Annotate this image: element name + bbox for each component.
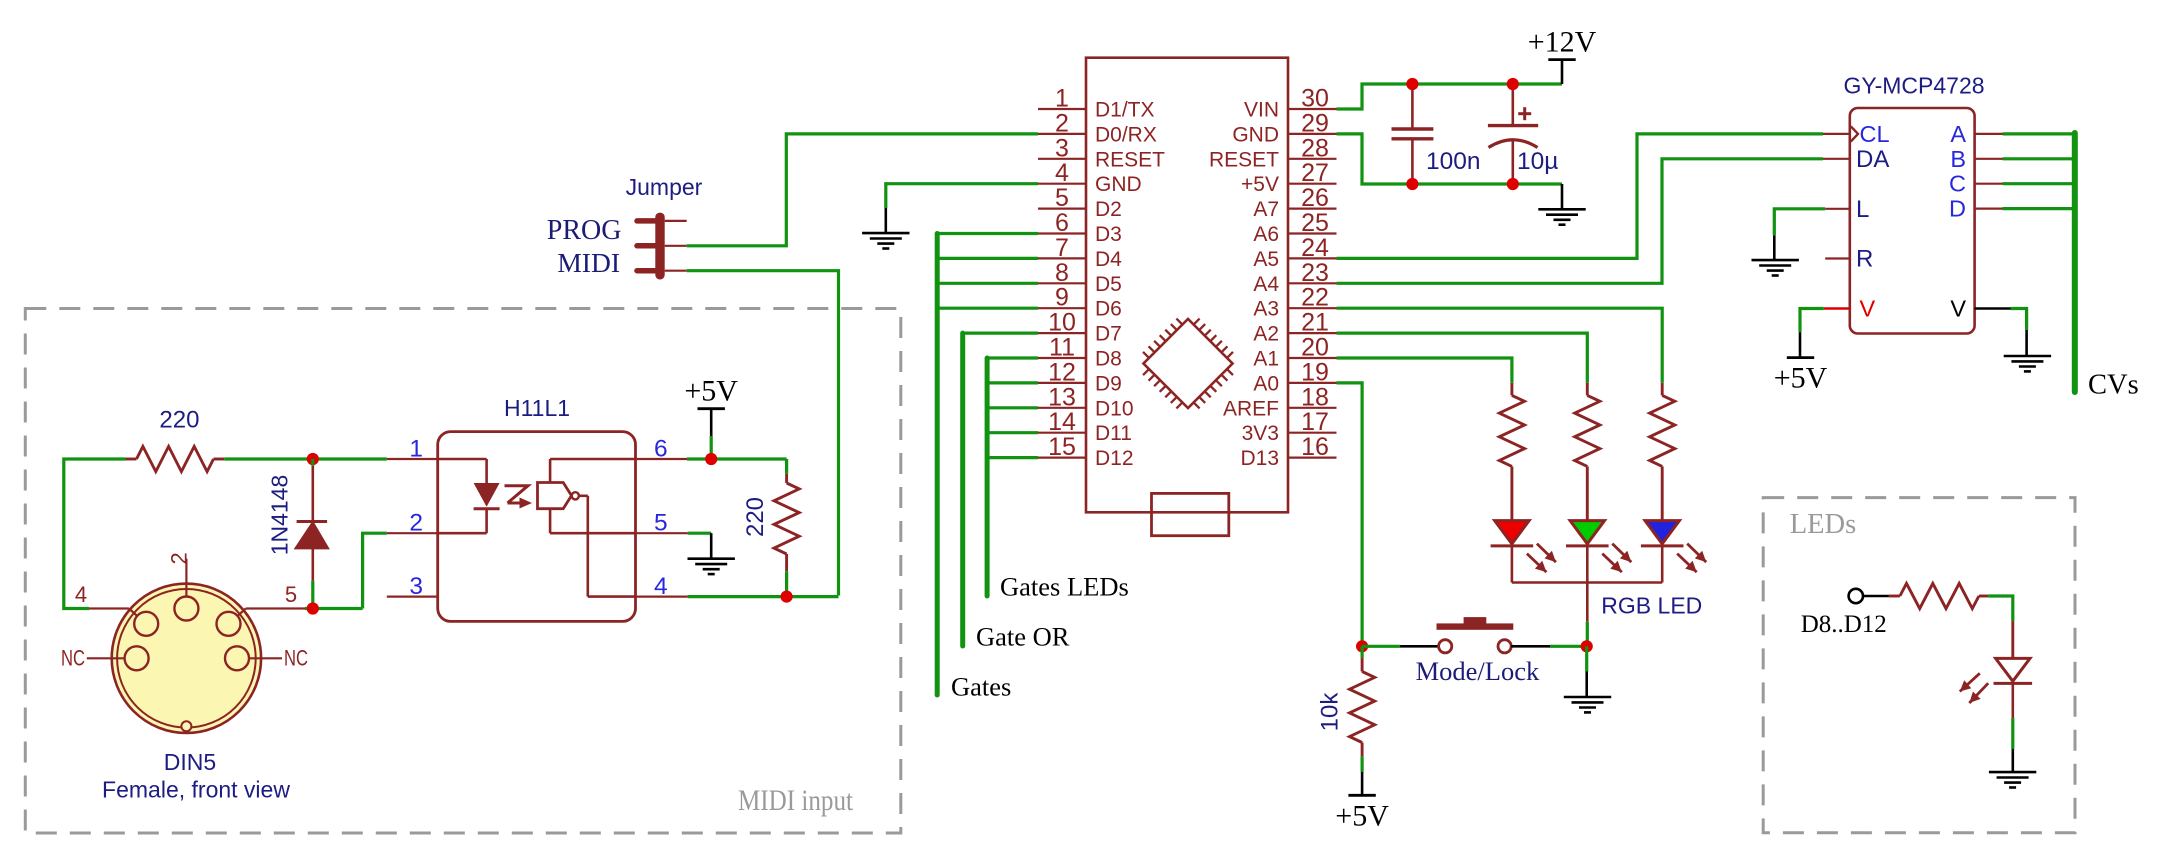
wire U2 pin4 net — [688, 595, 839, 598]
wire VIN to +12V rail — [1337, 84, 1563, 109]
U2 pin 1 — [387, 436, 438, 463]
svg-text:3: 3 — [1055, 134, 1069, 162]
svg-text:AREF: AREF — [1223, 397, 1279, 420]
wire A0 to switch — [1337, 383, 1363, 646]
svg-text:RGB LED: RGB LED — [1601, 592, 1702, 618]
svg-text:D8..D12: D8..D12 — [1801, 611, 1887, 638]
junction C1 top — [1406, 78, 1418, 90]
wire junction to switch — [1362, 645, 1400, 648]
label Gate OR — [976, 622, 1070, 652]
bus Gate OR (D7) — [963, 333, 1038, 646]
junction R1/D1 — [307, 453, 319, 465]
svg-text:+5V: +5V — [684, 375, 738, 408]
U2 pin 6 — [636, 436, 688, 463]
svg-text:16: 16 — [1301, 433, 1329, 461]
svg-text:D8: D8 — [1095, 348, 1122, 371]
svg-text:12: 12 — [1048, 358, 1076, 386]
wire U3 B to CVs bus — [2003, 157, 2075, 160]
U1 pin 8 D5 — [1038, 259, 1122, 296]
svg-text:+5V: +5V — [1241, 173, 1279, 196]
svg-text:D13: D13 — [1240, 447, 1279, 470]
U1 chip icon (QFP) — [1131, 307, 1244, 420]
bus Gates (D3-D6) — [937, 234, 1038, 696]
svg-text:Female, front view: Female, front view — [102, 777, 290, 803]
IC U1 microcontroller board (Arduino Nano) body — [1086, 58, 1288, 513]
resistor R6 (gate LED) — [1889, 583, 1988, 608]
svg-text:A4: A4 — [1253, 273, 1279, 296]
svg-text:D: D — [1949, 196, 1966, 222]
U3 pin C — [1949, 171, 2002, 197]
junction switch/cathode/ground — [1581, 640, 1593, 652]
connector J1 DIN5 body — [112, 584, 261, 733]
wire U3 A to CVs bus — [2003, 132, 2075, 135]
svg-text:NC: NC — [61, 646, 85, 671]
U1 pin 25 A6 — [1253, 209, 1336, 246]
svg-text:CVs: CVs — [2088, 370, 2139, 401]
capacitor C1 100n — [1392, 84, 1481, 184]
svg-text:GND: GND — [1095, 173, 1142, 196]
power +5V below 10k — [1335, 795, 1389, 832]
svg-text:22: 22 — [1301, 284, 1329, 312]
U1 pin 5 D2 — [1038, 184, 1122, 221]
label MIDI input — [738, 784, 854, 817]
junction A0/R4/switch — [1356, 640, 1368, 652]
svg-text:7: 7 — [1055, 234, 1069, 262]
U1 pin 14 D11 — [1038, 408, 1132, 445]
wire A3 to R-blue — [1337, 308, 1663, 383]
svg-text:D6: D6 — [1095, 298, 1122, 321]
U1 pin 13 D10 — [1038, 383, 1134, 420]
U1 pin 7 D4 — [1038, 234, 1122, 271]
U1 pin 16 D13 — [1240, 433, 1336, 470]
junction C2 top — [1507, 78, 1519, 90]
svg-text:1N4148: 1N4148 — [267, 475, 293, 556]
wire A5 to MCP4728 CL — [1337, 134, 1824, 259]
svg-text:2: 2 — [167, 552, 192, 564]
junction C1 bottom — [1406, 178, 1418, 190]
label CVs — [2088, 370, 2139, 401]
svg-text:B: B — [1950, 146, 1966, 172]
label MIDI — [557, 247, 620, 278]
label Female front view — [102, 777, 290, 803]
pin connector D8..D12 — [1849, 589, 1889, 603]
svg-text:D7: D7 — [1095, 323, 1122, 346]
svg-text:19: 19 — [1301, 358, 1329, 386]
svg-text:3: 3 — [409, 573, 423, 600]
U3 pin DA — [1823, 146, 1889, 173]
U1 pin 10 D7 — [1038, 309, 1122, 346]
jumper JP1 (PROG/MIDI select) — [626, 174, 703, 280]
svg-text:3V3: 3V3 — [1242, 422, 1279, 445]
svg-text:D12: D12 — [1095, 447, 1134, 470]
svg-text:5: 5 — [1055, 184, 1069, 212]
svg-text:Mode/Lock: Mode/Lock — [1416, 656, 1540, 686]
U2 pin 3 — [387, 573, 438, 600]
wire U1 GND pin4 to ground — [886, 184, 1038, 233]
wire cathode to switch junction — [1586, 622, 1589, 647]
J1 pin 5 lead — [238, 582, 306, 616]
wire switch to junction2 — [1550, 645, 1587, 648]
U1 pin 21 A2 — [1253, 309, 1336, 346]
svg-text:27: 27 — [1301, 159, 1329, 187]
label PROG — [547, 215, 622, 246]
svg-text:10k: 10k — [1317, 692, 1344, 732]
U1 pin 2 D0/RX — [1038, 109, 1157, 146]
LED D4 blue — [1641, 521, 1706, 573]
U1 pin 29 GND — [1232, 109, 1336, 146]
U3 pin A — [1950, 121, 2002, 147]
svg-text:D10: D10 — [1095, 397, 1134, 420]
svg-text:Gates LEDs: Gates LEDs — [1000, 572, 1129, 602]
svg-text:29: 29 — [1301, 109, 1329, 137]
svg-text:A7: A7 — [1253, 198, 1279, 221]
svg-text:11: 11 — [1049, 334, 1075, 362]
U1 pin 6 D3 — [1038, 209, 1122, 246]
U2 internal IR LED — [438, 459, 500, 533]
svg-text:LEDs: LEDs — [1790, 509, 1857, 540]
U2 pin 2 — [387, 510, 438, 537]
svg-text:25: 25 — [1301, 209, 1329, 237]
wire DIN4 loop — [64, 459, 126, 609]
resistor R2 (red LED) — [1499, 383, 1524, 521]
svg-text:DA: DA — [1856, 146, 1889, 173]
svg-text:6: 6 — [654, 436, 668, 463]
power +12V — [1528, 26, 1597, 84]
svg-text:GY-MCP4728: GY-MCP4728 — [1843, 73, 1984, 99]
ground at filter caps — [1538, 184, 1585, 225]
U3 pin R — [1825, 246, 1873, 273]
wire A4 to MCP4728 DA — [1337, 159, 1824, 283]
svg-text:4: 4 — [75, 582, 87, 607]
bus Gates LEDs (D8-D12) — [987, 358, 1038, 596]
label H11L1 — [504, 395, 570, 421]
wire U3 C to CVs bus — [2003, 182, 2075, 185]
svg-text:D9: D9 — [1095, 372, 1122, 395]
bus CVs — [2072, 133, 2078, 392]
svg-text:A3: A3 — [1253, 298, 1279, 321]
svg-text:220: 220 — [742, 497, 769, 537]
svg-text:D5: D5 — [1095, 273, 1122, 296]
svg-text:Gates: Gates — [951, 671, 1011, 701]
U2 pin 5 — [636, 510, 688, 537]
svg-text:13: 13 — [1048, 383, 1076, 411]
label LEDs — [1790, 509, 1857, 540]
LED D2 red — [1491, 521, 1556, 573]
svg-text:Gate OR: Gate OR — [976, 622, 1070, 652]
U1 pin 19 A0 — [1253, 358, 1336, 395]
U1 pin 20 A1 — [1253, 334, 1336, 371]
svg-text:A0: A0 — [1253, 372, 1279, 395]
resistor R5 10k — [1317, 646, 1375, 795]
svg-text:1: 1 — [1055, 85, 1069, 113]
U1 pin 17 3V3 — [1242, 408, 1337, 445]
power +5V at U3 — [1774, 358, 1828, 395]
U2 pin 4 — [636, 573, 688, 600]
svg-text:D2: D2 — [1095, 198, 1122, 221]
svg-text:Jumper: Jumper — [626, 174, 703, 200]
resistor R4 (blue LED) — [1650, 383, 1675, 521]
IC U2 H11L1 body — [438, 432, 636, 622]
svg-text:1: 1 — [409, 436, 423, 463]
svg-text:+5V: +5V — [1774, 362, 1828, 395]
svg-text:+12V: +12V — [1528, 26, 1597, 59]
svg-text:4: 4 — [654, 573, 668, 600]
svg-text:4: 4 — [1055, 159, 1069, 187]
U2 light coupling arrow — [505, 486, 533, 509]
U1 pin 4 GND — [1038, 159, 1142, 196]
U1 pin 12 D9 — [1038, 358, 1122, 395]
svg-text:9: 9 — [1055, 284, 1069, 312]
svg-text:VIN: VIN — [1244, 99, 1279, 122]
wire A1 to R-red — [1337, 358, 1512, 383]
svg-text:28: 28 — [1301, 134, 1329, 162]
U1 pin 3 RESET — [1038, 134, 1165, 171]
capacitor C2 10u polarized — [1488, 84, 1558, 184]
ground at U3 right — [2004, 356, 2051, 371]
svg-text:2: 2 — [409, 510, 423, 537]
svg-text:D0/RX: D0/RX — [1095, 123, 1157, 146]
svg-text:D1/TX: D1/TX — [1095, 99, 1155, 122]
ground at U1 pin4 — [862, 233, 909, 248]
ground in LEDs box — [1989, 772, 2036, 787]
svg-text:MIDI: MIDI — [557, 247, 620, 278]
svg-text:MIDI input: MIDI input — [738, 784, 854, 817]
pushbutton SW1 Mode/Lock — [1400, 617, 1550, 653]
LEDs dashed frame — [1763, 498, 2075, 833]
LED D5 (gate indicator) — [1960, 621, 2032, 718]
wire GND29 to ground rail — [1337, 134, 1563, 184]
wire junction2 to ground — [1585, 646, 1588, 697]
svg-text:5: 5 — [285, 582, 297, 607]
svg-text:8: 8 — [1055, 259, 1069, 287]
svg-text:RESET: RESET — [1095, 148, 1165, 171]
wire junction to H11L1 pin2 — [363, 533, 387, 608]
svg-text:R: R — [1856, 246, 1873, 273]
wire jumper-middle to U1 D0/RX — [687, 134, 1038, 246]
U1 USB connector icon — [1152, 493, 1229, 535]
ground at U2 pin5 — [688, 559, 735, 574]
U1 pin 15 D12 — [1038, 433, 1134, 470]
ground at U3 L — [1752, 260, 1799, 275]
svg-text:+5V: +5V — [1335, 799, 1389, 832]
svg-text:100n: 100n — [1426, 148, 1481, 175]
svg-text:RESET: RESET — [1209, 148, 1279, 171]
svg-text:18: 18 — [1301, 383, 1329, 411]
U3 pin L — [1825, 196, 1869, 223]
svg-text:14: 14 — [1048, 408, 1076, 436]
svg-text:C: C — [1949, 171, 1966, 197]
svg-text:A6: A6 — [1253, 223, 1279, 246]
J1 NC pin right — [249, 646, 309, 671]
U1 pin 22 A3 — [1253, 284, 1336, 321]
U1 pin 9 D6 — [1038, 284, 1122, 321]
svg-text:20: 20 — [1301, 334, 1329, 362]
label D8..D12 — [1801, 611, 1887, 638]
svg-text:V: V — [1860, 296, 1876, 322]
U1 pin 18 AREF — [1223, 383, 1337, 420]
svg-text:A2: A2 — [1253, 323, 1279, 346]
svg-text:NC: NC — [284, 646, 308, 671]
svg-text:21: 21 — [1301, 309, 1329, 337]
wire U3 D to CVs bus — [2003, 207, 2075, 210]
svg-text:10µ: 10µ — [1517, 148, 1558, 175]
ground at switch — [1564, 697, 1611, 712]
svg-text:A5: A5 — [1253, 248, 1279, 271]
svg-text:CL: CL — [1860, 121, 1890, 147]
wire R6 to LED — [1988, 596, 2013, 621]
svg-text:A: A — [1950, 121, 1966, 147]
U1 pin 27 +5V — [1241, 159, 1336, 196]
junction C2 bottom — [1507, 178, 1519, 190]
wire RGB LED common cathode — [1512, 546, 1662, 622]
LED D3 green — [1566, 521, 1631, 573]
U1 pin 26 A7 — [1253, 184, 1336, 221]
svg-text:17: 17 — [1301, 408, 1329, 436]
wire R1 to junction — [224, 457, 386, 460]
junction R3/pin4 — [781, 591, 793, 603]
label DIN5 — [164, 749, 216, 775]
wire U2 pin5 to ground — [688, 533, 712, 559]
U3 pin V right — [1950, 296, 2010, 322]
wire LED to ground — [2011, 718, 2014, 772]
U3 pin V left — [1824, 296, 1876, 322]
label Gates — [951, 671, 1011, 701]
label RGB LED — [1601, 592, 1702, 618]
label Mode/Lock — [1416, 656, 1540, 686]
svg-text:26: 26 — [1301, 184, 1329, 212]
diode D1 1N4148 — [267, 459, 329, 609]
wire A2 to R-green — [1337, 333, 1588, 383]
wire U3 Vout to ground — [2011, 309, 2027, 357]
svg-text:2: 2 — [1055, 109, 1069, 137]
U2 internal wiring — [550, 459, 635, 597]
wire U3 V to +5V — [1800, 309, 1824, 358]
U1 pin 1 D1/TX — [1038, 85, 1155, 122]
wire jumper-MIDI to H11L1 pin4 net — [687, 271, 839, 596]
resistor R3 (green LED) — [1575, 383, 1600, 521]
svg-text:10: 10 — [1048, 309, 1076, 337]
svg-text:V: V — [1950, 296, 1966, 322]
wire U3 L to ground — [1774, 209, 1825, 260]
svg-text:GND: GND — [1232, 123, 1279, 146]
svg-text:DIN5: DIN5 — [164, 749, 216, 775]
svg-text:5: 5 — [654, 510, 668, 537]
svg-text:D3: D3 — [1095, 223, 1122, 246]
svg-text:D11: D11 — [1095, 422, 1132, 445]
svg-text:23: 23 — [1301, 259, 1329, 287]
IC U3 GY-MCP4728 body — [1850, 108, 1975, 334]
U1 pin 28 RESET — [1209, 134, 1337, 171]
wire U2 pin6 net — [687, 457, 787, 460]
U1 pin 11 D8 — [1038, 334, 1122, 371]
MIDI input dashed frame — [25, 309, 901, 834]
svg-text:H11L1: H11L1 — [504, 395, 570, 421]
junction D1/DIN5 — [307, 602, 319, 614]
resistor R3 220 pull-up — [742, 459, 799, 596]
svg-text:15: 15 — [1048, 433, 1076, 461]
junction +5V/pin6 — [705, 453, 717, 465]
svg-text:PROG: PROG — [547, 215, 622, 246]
U1 pin 23 A4 — [1253, 259, 1336, 296]
U3 pin B — [1950, 146, 2002, 172]
label Gates LEDs — [1000, 572, 1129, 602]
resistor R1 220 — [126, 407, 224, 472]
wire DIN5 to junction — [305, 607, 363, 610]
svg-text:30: 30 — [1301, 85, 1329, 113]
U3 pin CL — [1823, 121, 1890, 147]
label GY-MCP4728 — [1843, 73, 1984, 99]
J1 NC pin left — [61, 646, 125, 671]
J1 pin 2 lead — [167, 552, 192, 596]
svg-text:24: 24 — [1301, 234, 1329, 262]
svg-text:L: L — [1856, 196, 1869, 223]
svg-text:220: 220 — [159, 407, 199, 434]
svg-text:6: 6 — [1055, 209, 1069, 237]
J1 pin 4 lead — [75, 582, 137, 616]
U3 pin D — [1949, 196, 2002, 222]
svg-text:D4: D4 — [1095, 248, 1122, 271]
U1 pin 30 VIN — [1244, 85, 1337, 122]
U2 schmitt trigger gate — [538, 483, 579, 509]
svg-text:A1: A1 — [1253, 348, 1279, 371]
power +5V at U2 — [684, 375, 738, 459]
U1 pin 24 A5 — [1253, 234, 1336, 271]
